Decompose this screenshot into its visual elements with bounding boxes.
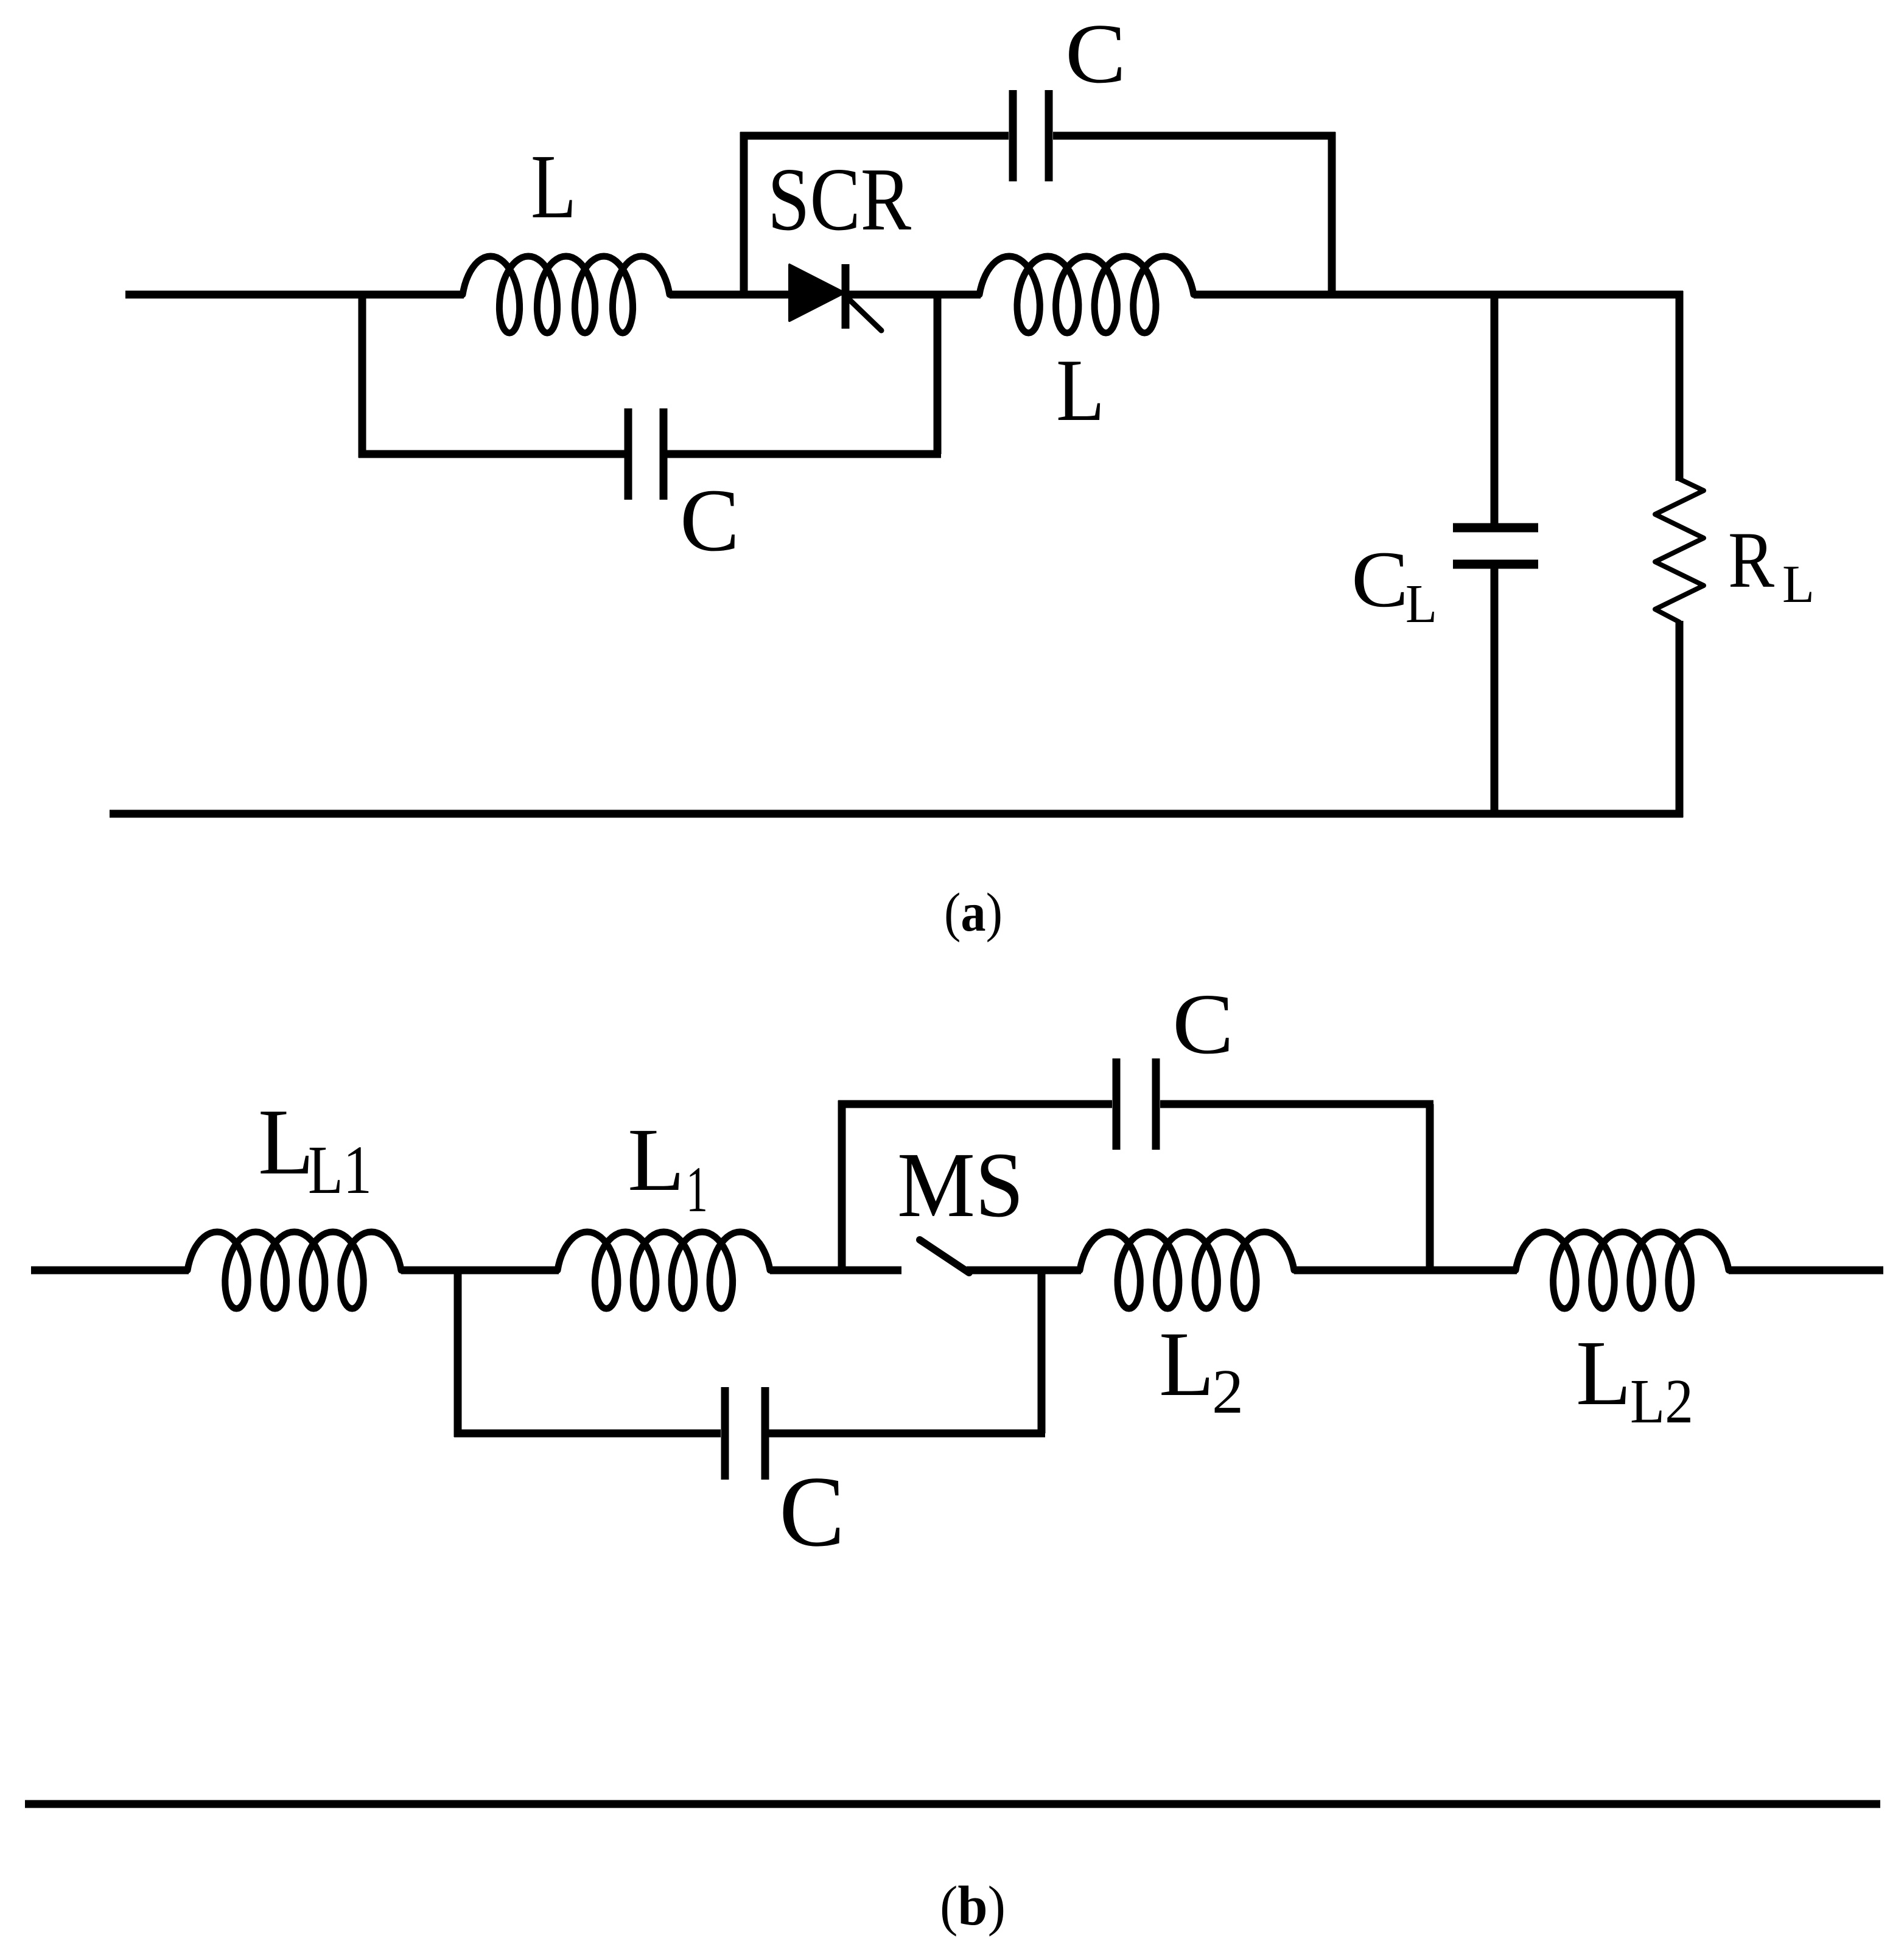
- resistor RL zigzag: [1655, 479, 1704, 622]
- svg-text:C: C: [680, 470, 740, 570]
- switch MS blade: [920, 1240, 969, 1273]
- svg-text:2: 2: [1212, 1357, 1244, 1427]
- inductor L (left, circuit a): [463, 256, 670, 333]
- svg-text:L1: L1: [308, 1132, 372, 1208]
- wire: (b) input lead: [31, 1267, 189, 1274]
- capacitor CL: bottom plate: [1453, 560, 1538, 569]
- wire: (b) bottom rail: [25, 1800, 1880, 1808]
- capacitor C (top, circuit b): right plate: [1152, 1058, 1160, 1150]
- wire: (a) right vertical of lower C branch: [934, 295, 942, 454]
- wire: (a) RL branch upper vertical: [1676, 291, 1684, 481]
- svg-text:L: L: [531, 135, 576, 237]
- inductor LL2: [1516, 1232, 1729, 1309]
- wire: (a) bottom return rail: [110, 810, 1683, 818]
- wire: (b) left vertical of lower C branch: [454, 1267, 462, 1437]
- wire: (b) L1 to switch: [770, 1267, 901, 1274]
- inductor LL1: [187, 1232, 401, 1309]
- svg-text:L: L: [1576, 1322, 1631, 1425]
- capacitor C (top, circuit b): left plate: [1113, 1058, 1121, 1150]
- wire: (a) top branch left horizontal: [740, 132, 1009, 140]
- svg-text:MS: MS: [897, 1134, 1024, 1237]
- wire: (b) left vertical of top C branch: [838, 1100, 846, 1270]
- wire: (a) CL branch lower vertical: [1491, 568, 1499, 817]
- wire: (a) left vertical of top C branch: [740, 132, 748, 295]
- wire: (b) right vertical of top C branch: [1426, 1104, 1434, 1270]
- svg-text:(b): (b): [940, 1875, 1006, 1937]
- wire: (a) RL branch lower vertical: [1676, 621, 1684, 817]
- capacitor C (top, circuit a): right plate: [1045, 90, 1053, 181]
- svg-text:(a): (a): [944, 883, 1003, 943]
- svg-text:L2: L2: [1630, 1366, 1693, 1436]
- svg-text:C: C: [779, 1455, 845, 1567]
- wire: (b) top branch right horizontal: [1160, 1100, 1433, 1108]
- capacitor C (lower, circuit a): right plate: [660, 408, 668, 500]
- wire: (b) output lead: [1729, 1267, 1883, 1274]
- wire: (a) inductor to load node and RL branch: [1194, 291, 1683, 299]
- svg-text:C: C: [1065, 7, 1126, 101]
- svg-text:L: L: [1405, 574, 1437, 634]
- wire: (a) top branch right horizontal: [1053, 132, 1335, 140]
- capacitor C (lower, circuit b): right plate: [761, 1387, 769, 1480]
- wire: (a) left vertical of lower C branch: [359, 291, 366, 458]
- capacitor C (lower, circuit a): left plate: [625, 408, 632, 500]
- svg-text:C: C: [1351, 534, 1409, 624]
- wire: (b) L2 to LL2: [1294, 1267, 1517, 1274]
- wire: (a) SCR cathode to inductor L (right): [847, 291, 981, 299]
- svg-text:C: C: [1172, 976, 1234, 1072]
- inductor L1: [558, 1232, 770, 1309]
- svg-text:L: L: [1782, 555, 1815, 614]
- svg-text:L: L: [1056, 341, 1105, 439]
- SCR U1: cathode bar: [842, 264, 850, 329]
- wire: (a) lower branch right horizontal: [667, 450, 941, 458]
- wire: (a) inductor L to SCR anode: [670, 291, 791, 299]
- wire: (b) lower branch right horizontal: [769, 1430, 1045, 1438]
- wire: (a) lower branch left horizontal: [359, 450, 625, 458]
- svg-text:L: L: [628, 1110, 685, 1210]
- wire: (b) right vertical of lower C branch: [1038, 1270, 1046, 1433]
- wire: (b) switch to L2: [967, 1267, 1081, 1274]
- wire: (b) lower branch left horizontal: [454, 1430, 721, 1438]
- capacitor CL: top plate: [1453, 523, 1538, 533]
- wire: (b) LL1 to L1: [401, 1267, 559, 1274]
- wire: (a) input lead to inductor L: [125, 291, 464, 299]
- wire: (a) right vertical of top C branch: [1328, 132, 1336, 295]
- svg-text:L: L: [1159, 1313, 1214, 1415]
- capacitor C (lower, circuit b): left plate: [721, 1387, 729, 1480]
- wire: (a) CL branch upper vertical: [1491, 295, 1499, 524]
- inductor L2: [1080, 1232, 1294, 1309]
- SCR U1: gate diagonal stroke: [848, 298, 881, 330]
- svg-text:R: R: [1728, 515, 1774, 604]
- inductor L (right, circuit a): [979, 256, 1194, 333]
- svg-text:SCR: SCR: [768, 150, 911, 250]
- svg-text:L: L: [258, 1089, 314, 1194]
- wire: (b) top branch left horizontal: [838, 1100, 1112, 1108]
- svg-text:1: 1: [686, 1154, 708, 1226]
- SCR U1: diode triangle: [789, 265, 844, 321]
- capacitor C (top, circuit a): left plate: [1009, 90, 1017, 181]
